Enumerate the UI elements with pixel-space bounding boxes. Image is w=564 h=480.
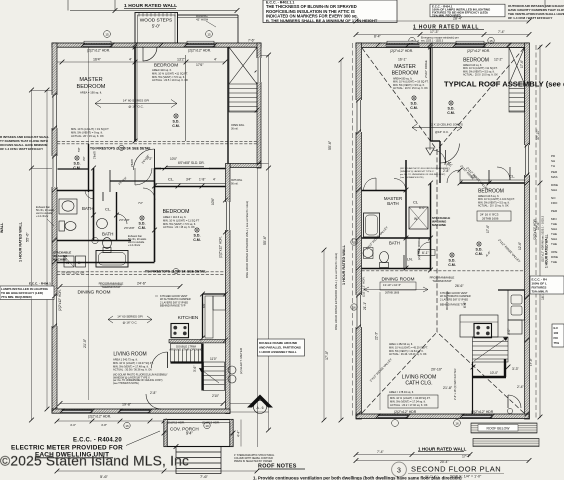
svg-text:C.M.: C.M. (447, 111, 455, 115)
right wall upper (257, 43, 261, 168)
svg-text:7'-6": 7'-6" (200, 474, 209, 479)
svg-text:(2)2"x12" HDR.: (2)2"x12" HDR. (219, 236, 223, 258)
svg-text:(2)2"x12" HDR.: (2)2"x12" HDR. (87, 49, 110, 53)
svg-text:(2)2"x12" HDR.: (2)2"x12" HDR. (188, 49, 211, 53)
svg-text:AREA = 178.04 sq. ft.: AREA = 178.04 sq. ft. (389, 390, 414, 394)
svg-text:7'2": 7'2" (147, 157, 152, 161)
svg-text:3'-0": 3'-0" (507, 329, 511, 335)
bath1 vanity (59, 199, 77, 214)
stove (171, 324, 189, 338)
dashed firestop band 1 (57, 141, 257, 144)
svg-text:THE: THE (551, 242, 557, 246)
svg-text:1 HOUR RATED WALL: 1 HOUR RATED WALL (342, 244, 346, 285)
svg-text:S.D.: S.D. (173, 120, 180, 124)
svg-text:DWE: DWE (551, 183, 558, 187)
hall door arc big (134, 149, 155, 170)
svg-text:(2)10'12 HDR.: (2)10'12 HDR. (167, 421, 185, 425)
svg-text:C.M.: C.M. (193, 238, 201, 242)
svg-text:SHA: SHA (551, 237, 557, 241)
svg-text:10'0": 10'0" (170, 157, 177, 161)
window sill bumps top wall left plan (84, 41, 111, 43)
svg-text:55'-6": 55'-6" (328, 140, 332, 150)
svg-text:55'-6": 55'-6" (263, 235, 267, 245)
svg-text:AROUND STAIR OPENING: AROUND STAIR OPENING (169, 348, 202, 352)
stairs right plan (473, 337, 509, 362)
svg-text:24'-6": 24'-6" (137, 282, 147, 286)
svg-text:MIN. 10 % (LIGHT) = 11 SQ.FT: MIN. 10 % (LIGHT) = 11 SQ.FT (163, 218, 200, 222)
svg-text:ACTUAL : 20 / 10 sq. ft. OK: ACTUAL : 20 / 10 sq. ft. OK (478, 205, 509, 208)
right-of-left-plan connectors (261, 55, 269, 57)
svg-text:15: 15 (489, 39, 493, 43)
svg-text:3'6": 3'6" (82, 156, 86, 161)
partition wall center (430, 48, 432, 142)
svg-text:7'-6": 7'-6" (248, 39, 256, 43)
svg-text:E.C.C. - R404.20: E.C.C. - R404.20 (73, 438, 122, 444)
svg-text:15: 15 (352, 241, 356, 245)
svg-text:17'-4": 17'-4" (462, 455, 471, 459)
svg-text:E.C: E.C (554, 326, 559, 330)
svg-text:(2)2"x12" HDR: (2)2"x12" HDR (471, 410, 494, 414)
svg-text:ACTUAL : 20.5 / 15.0 sq. ft. O: ACTUAL : 20.5 / 15.0 sq. ft. OK (393, 87, 428, 90)
svg-text:MIN. 10 % (LIGHT) =11 SQ.FT.: MIN. 10 % (LIGHT) =11 SQ.FT. (152, 71, 188, 75)
svg-text:AREA = 190 sq. ft.: AREA = 190 sq. ft. (80, 91, 102, 95)
svg-text:OPE: OPE (551, 250, 557, 254)
svg-text:(2) ELECT. METER: (2) ELECT. METER (239, 347, 243, 374)
svg-text:S.D.: S.D. (476, 248, 483, 252)
SD CM bedroom2 (195, 228, 199, 232)
bath2 toilet (103, 238, 112, 249)
svg-text:7'-4": 7'-4" (498, 30, 506, 34)
svg-text:90 mil.: 90 mil. (231, 183, 239, 186)
svg-text:13'2": 13'2" (177, 58, 186, 62)
svg-text:75% MIN. REQUIRED): 75% MIN. REQUIRED) (1, 295, 32, 299)
svg-text:6'-1": 6'-1" (422, 251, 430, 255)
structural column note (234, 454, 275, 463)
top wall (52, 43, 261, 47)
svg-text:BEDROOM: BEDROOM (77, 84, 106, 90)
svg-text:MIN: MIN (551, 217, 557, 221)
svg-text:3: 3 (397, 467, 401, 474)
svg-text:6'-6": 6'-6" (463, 302, 467, 308)
svg-text:BEDROOM: BEDROOM (163, 209, 190, 215)
svg-text:2 X 10 CEILING JOISTS: 2 X 10 CEILING JOISTS (431, 123, 463, 127)
svg-text:22'-3": 22'-3" (375, 332, 379, 340)
svg-text:17'-6": 17'-6" (520, 60, 524, 68)
svg-text:SECOND FLOOR PLAN: SECOND FLOOR PLAN (411, 465, 501, 474)
svg-text:DOUBLE FRAME AROUND: DOUBLE FRAME AROUND (259, 341, 298, 345)
svg-text:PER: PER (551, 209, 558, 213)
door arcs right plan (394, 179, 406, 191)
svg-text:ACTUAL : 20 / 15 sq. ft. OK: ACTUAL : 20 / 15 sq. ft. OK (163, 225, 195, 229)
master bath walls right plan (362, 190, 407, 192)
right plan left vertical dims (323, 250, 325, 420)
svg-text:BATH: BATH (387, 201, 398, 206)
shower w diagonals (409, 207, 428, 229)
dashed property line left of right plan (352, 43, 354, 418)
sub-wall dim line porch row (57, 420, 164, 422)
svg-text:8'-4": 8'-4" (374, 35, 382, 39)
svg-text:16: 16 (125, 424, 129, 428)
svg-text:PRESS IN SELECTED BY OWNER: PRESS IN SELECTED BY OWNER (234, 460, 272, 463)
svg-text:4': 4' (213, 178, 216, 182)
title circle 3 (392, 462, 407, 477)
svg-text:20'-4": 20'-4" (440, 460, 449, 464)
svg-text:7'-4": 7'-4" (377, 450, 385, 454)
hall walls below band (88, 144, 90, 192)
svg-text:SHA: SHA (551, 227, 557, 231)
svg-text:ROOF RIDGE: ROOF RIDGE (445, 291, 449, 310)
svg-text:16: 16 (455, 422, 459, 426)
svg-text:DINING ROOM: DINING ROOM (381, 277, 414, 283)
window gap lower right wall left plan (225, 202, 231, 230)
svg-text:THERMOSTAT: THERMOSTAT (432, 279, 452, 283)
right margin clipped note lines (551, 154, 558, 264)
wall y262 bath bottom (57, 262, 155, 264)
window spec box bedroom (477, 211, 511, 221)
svg-text:ROOF BELOW: ROOF BELOW (487, 427, 511, 431)
svg-text:C.M.: C.M. (73, 166, 81, 170)
svg-text:16'4": 16'4" (93, 58, 102, 62)
svg-text:BEDROOM: BEDROOM (154, 63, 178, 68)
right wall lower (hatched) (226, 164, 231, 414)
svg-text:2'0"x6'8": 2'0"x6'8" (119, 218, 130, 222)
kitchen counter band (169, 340, 226, 343)
svg-text:S.D.: S.D. (448, 107, 455, 111)
roof below hatched boxes (471, 423, 537, 433)
top wall window gaps (83, 44, 112, 47)
right margin vertical dims (535, 45, 537, 418)
svg-text:7'2": 7'2" (138, 201, 143, 205)
bottom wall window gaps (62, 410, 92, 413)
svg-text:2'6"x6'8": 2'6"x6'8" (124, 226, 135, 230)
svg-text:(2)2"x12" HDR: (2)2"x12" HDR (533, 218, 537, 240)
left wall (hatched) (52, 43, 57, 413)
svg-text:14" 60 SERIES GPI: 14" 60 SERIES GPI (117, 315, 143, 319)
svg-text:S.D.: S.D. (74, 162, 81, 166)
svg-text:BEHIND RANGE TYP: BEHIND RANGE TYP (440, 303, 466, 307)
svg-text:MIN. 5% (VENT) = 17.04 sq. ft.: MIN. 5% (VENT) = 17.04 sq. ft. (390, 400, 426, 404)
4-4 dim right of porch (240, 420, 242, 447)
svg-text:CATH CLG.: CATH CLG. (405, 381, 432, 387)
washer dryer boxes (64, 256, 74, 267)
vertical wall bath1 right (93, 168, 95, 241)
svg-text:MIN. 5% (VENT) = 5.5 sq. ft.: MIN. 5% (VENT) = 5.5 sq. ft. (163, 222, 196, 226)
kitchen counters right plan (460, 315, 498, 337)
svg-text:KITCHEN: KITCHEN (178, 315, 199, 320)
svg-text:ACTUAL : 20.5 / 10.0 sq. ft. O: ACTUAL : 20.5 / 10.0 sq. ft. OK (463, 74, 498, 77)
svg-text:2'10": 2'10" (212, 394, 219, 398)
svg-text:1. Provide continuous ventilat: 1. Provide continuous ventilation per bo… (253, 476, 462, 480)
svg-text:©2025 Staten Island MLS, Inc: ©2025 Staten Island MLS, Inc (0, 454, 189, 469)
hall wall x155 (154, 168, 156, 262)
svg-text:per. lbs. TO UNDERSIDE OF CEIL: per. lbs. TO UNDERSIDE OF CEILING JOIST) (400, 173, 446, 176)
tub (96, 251, 128, 268)
svg-text:16'-1": 16'-1" (398, 58, 407, 62)
partition wall master/bedroom2 (134, 47, 136, 141)
svg-text:TGI FIRESTOPS @ 500 SF. SEE DE: TGI FIRESTOPS @ 500 SF. SEE DETAIL (145, 270, 206, 274)
stair opening box (171, 344, 202, 363)
svg-text:MAS: MAS (551, 175, 558, 179)
svg-text:2'-8" x 16' (4) WAY RAFTER: 2'-8" x 16' (4) WAY RAFTER (454, 368, 457, 400)
section marker A-6 (230, 395, 274, 414)
svg-text:S.D.: S.D. (411, 102, 418, 106)
wall tag circle left wall right plan 2 (351, 304, 357, 310)
svg-text:5'8": 5'8" (77, 147, 81, 152)
svg-text:C.M.: C.M. (172, 124, 180, 128)
svg-text:C.M.: C.M. (448, 263, 456, 267)
svg-text:DINING ROOM: DINING ROOM (77, 290, 110, 296)
svg-text:ft. THE NUMBERS SHALL BE A MIN: ft. THE NUMBERS SHALL BE A MINIMUM OF 1"… (266, 18, 378, 23)
tub right plan (364, 213, 380, 237)
svg-text:6'6": 6'6" (202, 303, 206, 308)
wall tag circle 15 (409, 37, 415, 43)
closet band right plan (460, 182, 525, 184)
svg-text:100: 100 (554, 331, 559, 335)
svg-text:TH: TH (551, 164, 555, 168)
note outdoor air intakes (508, 4, 564, 20)
svg-text:MIN. 5% (VENT) = 9 sq. ft.: MIN. 5% (VENT) = 9 sq. ft. (71, 131, 103, 135)
svg-text:LN.: LN. (407, 258, 413, 262)
svg-text:BEDROOM: BEDROOM (463, 58, 489, 64)
top dim lines right plan (354, 17, 532, 46)
wall tag circle left wall right plan (351, 239, 357, 245)
joist arrow living (108, 316, 152, 323)
kitchen walls (202, 294, 204, 338)
svg-text:21'-8": 21'-8" (443, 386, 453, 390)
bottom-left dim lines (57, 470, 257, 472)
svg-text:1 HOUR ASSEMBLY WALL: 1 HOUR ASSEMBLY WALL (259, 350, 297, 354)
closet band bedroom2 (155, 186, 226, 188)
dashed firestop right plan (362, 270, 525, 272)
svg-text:4'-0": 4'-0" (70, 423, 76, 427)
svg-text:1 HOUR RATED WALL: 1 HOUR RATED WALL (19, 221, 23, 262)
svg-text:MASTER: MASTER (394, 64, 416, 70)
svg-text:6'0"x6'8" SLD. DR.: 6'0"x6'8" SLD. DR. (178, 161, 205, 165)
svg-text:DWE: DWE (551, 255, 558, 259)
svg-text:+1.4 cfm/w: +1.4 cfm/w (128, 244, 140, 247)
svg-text:CL: CL (413, 200, 419, 205)
svg-text:3'-6": 3'-6" (193, 366, 197, 372)
svg-text:MIN. 5% (VENT) = 17.48 sq. ft.: MIN. 5% (VENT) = 17.48 sq. ft. (113, 364, 149, 368)
stove right plan (474, 324, 492, 338)
svg-text:ACTUAL : 30.36 / 36.36 sq. ft.: ACTUAL : 30.36 / 36.36 sq. ft. OK (113, 368, 152, 372)
door arc porch entry (146, 394, 161, 409)
svg-text:(2)2"x12" HDR.: (2)2"x12" HDR. (88, 415, 111, 419)
svg-text:(see THOMAS'S NOTE): (see THOMAS'S NOTE) (113, 382, 139, 385)
hall top wall (57, 168, 89, 170)
svg-text:(2)2"x12" HDR.: (2)2"x12" HDR. (362, 276, 366, 297)
svg-text:+1.4 cfm/w: +1.4 cfm/w (36, 215, 48, 218)
svg-text:ACTUAL : 20.5 / 10.0 sq. ft. O: ACTUAL : 20.5 / 10.0 sq. ft. OK (152, 78, 188, 82)
svg-text:21'-0": 21'-0" (83, 338, 87, 348)
svg-text:(NO SOLAR PHOTO FLUOROCULUM AS: (NO SOLAR PHOTO FLUOROCULUM ASSEMBLY (400, 167, 451, 170)
svg-text:5'-0": 5'-0" (152, 24, 161, 29)
double frame note box (258, 339, 305, 356)
svg-text:AREA=110 sq. ft.: AREA=110 sq. ft. (152, 68, 172, 72)
svg-text:E.C.C. - R404.1: E.C.C. - R404.1 (29, 282, 51, 286)
svg-text:4'-8": 4'-8" (101, 423, 107, 427)
scattered wall ticks left plan (52, 43, 261, 449)
svg-text:20'-10": 20'-10" (431, 368, 443, 372)
svg-text:15: 15 (207, 33, 211, 37)
svg-text:42" HIGH: 42" HIGH (196, 17, 208, 21)
wall below master bedroom (57, 190, 94, 192)
bath1 toilet (59, 221, 65, 231)
SD CM hall (140, 216, 144, 220)
svg-text:(see THOMAS'S NOTE): (see THOMAS'S NOTE) (400, 176, 424, 179)
svg-text:12'-2": 12'-2" (494, 58, 503, 62)
svg-text:75% MIN. R: 75% MIN. R (532, 290, 549, 294)
svg-text:ONE HOUR RATED EXTERIOR WALL (: ONE HOUR RATED EXTERIOR WALL ( see archi… (245, 201, 249, 278)
svg-text:14" 60 SERIES GPI: 14" 60 SERIES GPI (123, 99, 150, 103)
svg-text:7'-0": 7'-0" (446, 164, 452, 168)
stair thick wall (201, 344, 203, 391)
svg-text:AND PARALLEL PARTITIONS: AND PARALLEL PARTITIONS (259, 346, 301, 350)
svg-text:TGI FIRESTOPS @ 500 SF. SEE DE: TGI FIRESTOPS @ 500 SF. SEE DETAIL (90, 146, 151, 150)
svg-text:36 mil.: 36 mil. (231, 128, 239, 131)
svg-text:@16" O.C.: @16" O.C. (435, 130, 449, 134)
svg-text:CL.: CL. (168, 177, 174, 182)
wood steps box (135, 13, 178, 44)
svg-text:PER: PER (551, 170, 558, 174)
bath2 sink (97, 219, 108, 229)
roof valleys dashed (362, 48, 437, 150)
svg-text:S.D.: S.D. (139, 222, 146, 226)
svg-text:C.M.: C.M. (475, 252, 483, 256)
ceiling joists 4-way arrows (412, 124, 462, 131)
svg-text:2'6x6'8: 2'6x6'8 (94, 151, 97, 159)
svg-text:13'-10" x 10'-5": 13'-10" x 10'-5" (383, 283, 401, 287)
svg-text:(2)2"x12" RIDGE: (2)2"x12" RIDGE (417, 237, 421, 260)
dining span arrow right plan (364, 289, 428, 291)
svg-text:17'-0": 17'-0" (325, 350, 329, 360)
svg-text:(2)2"x12" HDR.: (2)2"x12" HDR. (467, 49, 490, 53)
svg-text:W: W (66, 261, 70, 265)
right margin ECC box (530, 276, 564, 294)
svg-text:@ 16" O.C.: @ 16" O.C. (128, 105, 143, 109)
svg-text:MASTER: MASTER (79, 77, 102, 83)
bottom wall (52, 409, 230, 413)
svg-text:MIN. 10 % (LIGHT) = 34.07 SQ.F: MIN. 10 % (LIGHT) = 34.07 SQ.FT. (113, 361, 154, 365)
svg-text:SHA: SHA (551, 188, 557, 192)
svg-text:(2)2"x12" HDR.: (2)2"x12" HDR. (390, 49, 413, 53)
svg-text:55'-6": 55'-6" (26, 232, 30, 242)
svg-text:10'6": 10'6" (211, 198, 215, 205)
svg-text:MACHINE: MACHINE (432, 223, 446, 227)
up arrow stairs (199, 368, 219, 383)
svg-text:S.D.: S.D. (449, 259, 456, 263)
svg-text:12'-6": 12'-6" (518, 242, 522, 250)
svg-text:2'-8": 2'-8" (150, 391, 156, 395)
svg-text:3'-3": 3'-3" (512, 367, 520, 371)
kitchen cabinets right (205, 296, 213, 338)
svg-text:10: 10 (205, 424, 209, 428)
boxed dim 6-1 (418, 250, 435, 256)
svg-text:17'6": 17'6" (196, 63, 204, 67)
left wall window gap mid (52, 156, 58, 187)
svg-text:AREA = 110.6 sq. ft.: AREA = 110.6 sq. ft. (163, 215, 187, 219)
svg-text:2'6x6'8: 2'6x6'8 (131, 159, 134, 167)
top wall (356, 43, 529, 48)
svg-text:4': 4' (129, 58, 132, 62)
svg-text:ACTUAL : 46.46 / 23.23 sq. ft.: ACTUAL : 46.46 / 23.23 sq. ft. OK (389, 353, 427, 356)
porch (164, 420, 233, 447)
svg-text:THE: THE (551, 232, 557, 236)
porch steps (176, 447, 221, 474)
circle tag porch (204, 422, 210, 428)
svg-text:6'-0": 6'-0" (419, 206, 425, 210)
left margin air intake note (0, 135, 49, 151)
svg-text:D: D (78, 261, 81, 265)
sd cm right plan (412, 96, 416, 100)
svg-text:4': 4' (214, 58, 217, 62)
svg-text:BATH: BATH (102, 232, 113, 237)
left wall window gaps (52, 95, 58, 128)
svg-text:ELECTRIC METER PROVIDED FOR: ELECTRIC METER PROVIDED FOR (11, 445, 123, 452)
svg-text:26TAB 1606: 26TAB 1606 (385, 291, 400, 295)
bedroom2 door arc at top (143, 47, 157, 61)
bottom wall (356, 414, 529, 419)
svg-text:26TAB 1606: 26TAB 1606 (482, 217, 499, 221)
svg-text:MIN. 10 % (LIGHT) = 34.08 SQ.F: MIN. 10 % (LIGHT) = 34.08 SQ.FT. (390, 396, 431, 400)
svg-text:9'4": 9'4" (186, 431, 193, 436)
svg-text:S.D.: S.D. (194, 234, 201, 238)
right wall hatched (525, 43, 530, 419)
svg-text:sec 1025.1 - 1025.3: sec 1025.1 - 1025.3 (421, 40, 444, 43)
svg-text:15: 15 (105, 33, 109, 37)
living room area stats right plan (389, 343, 428, 356)
dashed firestop band 2 (57, 272, 226, 275)
svg-text:W.: W. (414, 217, 418, 221)
svg-text:17'-6": 17'-6" (486, 225, 490, 233)
svg-text:BEDROOM: BEDROOM (478, 189, 504, 195)
left margin ECC box (0, 282, 54, 300)
svg-text:MIN. 10 % (LIGHT) = 19 SQ.FT: MIN. 10 % (LIGHT) = 19 SQ.FT (71, 127, 109, 131)
svg-text:NO: NO (551, 196, 556, 200)
svg-text:2"x10" RIDGE: 2"x10" RIDGE (424, 60, 428, 78)
svg-text:LIVING ROOM: LIVING ROOM (113, 352, 146, 358)
svg-text:C.M.: C.M. (138, 226, 146, 230)
svg-text:37'-10": 37'-10" (536, 129, 540, 140)
svg-text:10'-0": 10'-0" (490, 371, 498, 375)
lower stair run (204, 362, 225, 391)
svg-text:TYPICAL ROOF ASSEMBLY (see det: TYPICAL ROOF ASSEMBLY (see det (444, 80, 564, 89)
step wall (230, 164, 261, 168)
svg-text:28'-4": 28'-4" (453, 17, 463, 21)
top dim label 1 HOUR RATED WALL (68, 0, 239, 13)
svg-text:THE: THE (551, 260, 557, 264)
roof ridge dashed (436, 150, 438, 332)
svg-text:1'-8": 1'-8" (199, 178, 205, 182)
clipped ECC note box 2 right margin (552, 324, 564, 347)
svg-text:3'4": 3'4" (186, 178, 191, 182)
svg-text:MIN. 5% (VENT) = 5.5 sq. ft.: MIN. 5% (VENT) = 5.5 sq. ft. (152, 75, 185, 79)
exhaust fan note left wall (36, 206, 55, 218)
svg-text:SH: SH (551, 159, 555, 163)
interior dim line x88 (88, 47, 90, 144)
extra interior verticals (185, 55, 187, 141)
circle tag bottom right plan (454, 420, 461, 427)
svg-text:C.M.: C.M. (410, 106, 418, 110)
svg-text:BEDROOM: BEDROOM (392, 71, 419, 77)
svg-text:21'-1": 21'-1" (363, 302, 367, 310)
svg-text:75%: 75% (554, 341, 560, 345)
svg-text:ACTUAL: 20' / 15 sq. ft. OK: ACTUAL: 20' / 15 sq. ft. OK (71, 134, 104, 138)
svg-text:1 HOUR RATED WALL: 1 HOUR RATED WALL (418, 447, 467, 452)
top-right stairwell right plan (509, 48, 525, 113)
wall y240 (57, 240, 131, 242)
door arc lower right (508, 395, 521, 408)
